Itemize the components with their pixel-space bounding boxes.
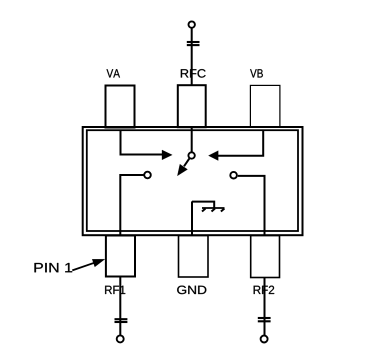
capacitor C3 (series cap on RF2 line) [258, 317, 271, 319]
arrowhead VA control pointing right [162, 150, 172, 160]
pin-1 indicator arrow [72, 261, 100, 271]
contact circle RF2 throw [230, 172, 237, 179]
terminal J1 (RFC port circle at top) [189, 21, 195, 27]
pin RF1 (bottom left pin rectangle) [106, 236, 135, 277]
wire RFC (top terminal down through capacitor, pin and package to switch pole) [191, 28, 193, 152]
pin RF2 (bottom right pin rectangle) [251, 236, 280, 278]
pin VA (top left pin rectangle) [106, 86, 135, 128]
capacitor C1 (series cap on RFC line) [187, 41, 200, 43]
label RFC [181, 69, 206, 78]
label RF2 [254, 286, 275, 294]
label RF1 [105, 286, 125, 294]
terminal J3 (RF2 port circle at bottom) [261, 336, 268, 343]
switch pole circle (RFC common node) [188, 152, 194, 158]
switch arm arrow (pole throwing toward RF1 contact) [184, 159, 189, 167]
label GND [177, 286, 206, 295]
capacitor C2 (series cap on RF1 line) [115, 318, 128, 320]
terminal J2 (RF1 port circle at bottom) [117, 335, 124, 342]
wire VA control (from VA pin into package, to arrow) [121, 131, 163, 155]
pin GND (bottom center pin rectangle) [179, 236, 209, 278]
pin VB (top right pin rectangle) [250, 85, 280, 127]
label VA [107, 69, 120, 77]
wire VB control (from VB pin into package, to arrow) [218, 131, 264, 156]
wire RF1 (throw contact out through RF1 pin down to capacitor and terminal) [120, 175, 143, 335]
label VB [250, 69, 263, 77]
IC package outer outline [83, 127, 303, 235]
IC package inner outline [87, 130, 298, 231]
label PIN 1 [34, 263, 72, 272]
pin RFC (top center pin rectangle) [178, 85, 206, 127]
arrowhead VB control pointing left [209, 151, 219, 161]
wire RF2 (throw contact out through RF2 pin down to capacitor and terminal) [238, 176, 265, 335]
wire GND (chassis ground down to GND pin) [191, 201, 193, 237]
wire to chassis ground (up and over) [192, 202, 214, 208]
contact circle RF1 throw [144, 172, 151, 179]
ground symbol (chassis ground) [202, 207, 225, 209]
